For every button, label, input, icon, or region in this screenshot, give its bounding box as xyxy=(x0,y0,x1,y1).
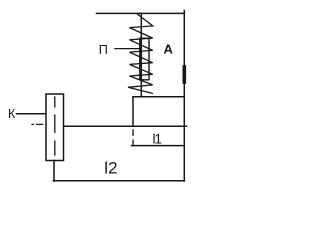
svg-text:l2: l2 xyxy=(104,158,117,177)
wire l1 dimension line xyxy=(132,145,185,147)
wire middle (K output to right wire) xyxy=(64,125,187,127)
dashed extension of box left edge xyxy=(132,130,134,136)
heater spiral winding xyxy=(128,14,153,94)
svg-text:l1: l1 xyxy=(153,132,162,147)
wire from K element bottom xyxy=(53,161,55,182)
electrode thick segment on right wire xyxy=(183,67,187,82)
wire from К label to K element xyxy=(17,113,47,115)
K element rectangle xyxy=(46,94,64,161)
heater spiral axis xyxy=(140,13,142,96)
leader line from П to spiral xyxy=(115,48,140,50)
K element dashed center line xyxy=(54,97,56,155)
svg-text:П: П xyxy=(99,43,108,57)
svg-text:A: A xyxy=(164,41,174,56)
wire bottom (l2 run) xyxy=(53,180,184,182)
wire right vertical xyxy=(183,11,185,182)
furnace box xyxy=(133,97,184,127)
dash-dot axis mark left of K element xyxy=(32,123,43,125)
wire top feed xyxy=(97,12,185,14)
muffle tube rectangle xyxy=(140,38,149,80)
svg-text:К: К xyxy=(8,107,16,121)
